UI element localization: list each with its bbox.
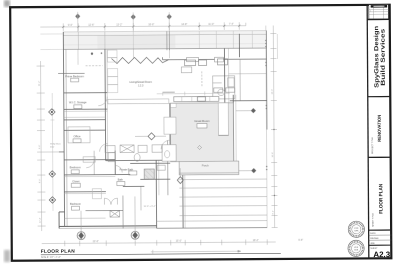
svg-text:OAK: OAK [354,229,359,232]
svg-text:Bedroom: Bedroom [70,165,82,169]
powder room [162,145,176,162]
scan shadow top-left corner [4,0,10,7]
island dashed line [201,71,203,87]
title block: date / drawn / job rows [369,232,392,245]
svg-text:11'-2": 11'-2" [39,80,41,86]
stamp seal lower [348,240,364,256]
room label: bath [117,168,137,185]
exterior wall bottom [59,211,157,228]
left dim numbers [39,79,275,223]
bottom grid bubble 1 [77,211,85,240]
right side grid diamond E [239,168,257,173]
scan shadow bottom-left corner [4,250,10,262]
door hardware dots [91,52,103,55]
svg-text:OAK: OAK [354,248,359,251]
svg-text:DRAWN: DRAWN [370,237,379,240]
svg-text:SCALE: 1/4" = 1'-0": SCALE: 1/4" = 1'-0" [41,256,61,259]
interior wall verticals [93,30,278,228]
hall walls [65,210,124,218]
left grid diamond A [49,109,55,115]
svg-text:Bedroom: Bedroom [70,202,82,206]
svg-text:1,2,3: 1,2,3 [138,84,144,87]
svg-text:12'-6": 12'-6" [88,24,94,27]
title block: sheet number A2.3 [370,248,391,259]
svg-text:FLOOR PLAN: FLOOR PLAN [378,183,384,213]
room label: wic [69,100,87,108]
window dots right edge [265,40,275,196]
prime bedroom closet dashes [58,66,103,74]
svg-text:Prime Bedroom: Prime Bedroom [65,74,84,78]
right side grid diamond D [236,108,256,113]
top exterior deck band [63,31,266,51]
room label: bedroom 3 [70,202,82,210]
folding glass zigzag wall [111,57,168,63]
title block: project title box (RENOVATION) [368,115,391,158]
bottom dim text [93,239,304,243]
grid marker 2 [131,12,136,58]
room label: living room [129,80,152,88]
small island box [181,67,192,73]
stamp seal upper [348,221,364,237]
left dimension line [37,61,59,231]
room label: prime bedroom [65,74,84,82]
svg-text:1: 1 [370,10,371,12]
bottom secondary dimension line [151,249,241,254]
closet row boxes [105,145,162,153]
svg-text:18'-2": 18'-2" [253,239,259,242]
svg-text:SpyGlass Design: SpyGlass Design [374,25,380,87]
svg-text:10'-6" x 9'-2": 10'-6" x 9'-2" [143,206,155,208]
bottom dimension line [42,239,276,246]
svg-text:11'-0": 11'-0" [208,23,214,26]
interior wall horizontals [58,74,267,194]
svg-text:W.I.C. Storage: W.I.C. Storage [69,100,87,104]
bath fixtures [108,152,165,170]
garage / great room gray area [164,103,234,162]
svg-text:9'-8": 9'-8" [298,239,303,242]
title block: revisions table [367,5,390,20]
svg-text:Great Room: Great Room [194,119,210,123]
left grid diamond B [49,171,55,177]
svg-text:Office: Office [74,134,82,138]
top dimension line [40,22,246,31]
svg-text:Porch: Porch [202,163,209,167]
exterior wall left [63,32,67,227]
interior dim line y93.5 [157,91,230,95]
svg-text:8'-0": 8'-0" [39,178,41,183]
svg-text:9'-0": 9'-0" [68,24,73,27]
title block: firm name (SpyGlass Design Build Services) [367,25,390,96]
svg-text:SHEET TITLE: SHEET TITLE [373,213,375,227]
svg-text:15'-0": 15'-0" [176,240,182,243]
svg-text:22'-6": 22'-6" [93,240,99,243]
closet shelving cells along corridor [107,50,117,93]
svg-text:FLOOR PLAN: FLOOR PLAN [41,249,75,255]
svg-text:Verify Glass: Verify Glass [50,143,61,145]
svg-text:Bath: Bath [118,179,124,182]
title block: sheet title box (FLOOR PLAN) [368,183,391,230]
room label: office [68,127,90,143]
buffet band left [108,99,169,104]
top dimension tick marks [62,25,240,28]
svg-text:12'-4": 12'-4" [40,217,42,223]
grid marker 3 [167,12,172,58]
wall below deck band [63,48,266,49]
svg-text:A2.3: A2.3 [373,250,391,259]
svg-text:DATE: DATE [370,232,376,235]
left grid diamond C [49,197,55,203]
svg-text:Living/Great Room: Living/Great Room [129,80,152,84]
bathroom hatch room [144,169,154,179]
svg-text:PROJECT TITLE: PROJECT TITLE [372,137,374,154]
right dimension line [266,25,278,227]
svg-text:9'-6": 9'-6" [39,144,41,149]
deck dim extension lines left [40,34,63,50]
mid grid diamond F [135,133,166,140]
bottom grid bubble 2 [131,196,139,239]
room label: bedroom 2 [70,165,82,173]
margin note text [50,143,61,148]
great room label [194,119,210,150]
kitchen top wall with windows [162,57,266,63]
svg-text:RENOVATION: RENOVATION [377,115,382,142]
svg-text:14'-8": 14'-8" [181,23,187,26]
drawing title: FLOOR PLAN [41,247,281,259]
door arcs [86,96,171,173]
hall dim text [143,206,155,208]
title block: left edge line [367,5,369,259]
french doors hall [104,198,117,205]
mid grid diamond G [177,168,183,184]
porch band [179,161,239,175]
svg-text:Closet: Closet [72,180,79,183]
equipment x-box [110,211,120,218]
top dimension text [68,23,234,27]
grid marker 1 [75,12,80,65]
secondary left dim line [50,93,55,211]
pantry room right of kitchen [213,76,235,99]
svg-text:13'-2": 13'-2" [116,24,122,27]
svg-text:Build Services: Build Services [381,28,387,86]
closet label and furniture [71,157,101,199]
kitchen counter band [174,96,219,101]
svg-text:7'-4": 7'-4" [229,23,234,26]
patio step lines [156,179,267,228]
kitchen island appliances [185,59,228,66]
kitchen room tags [214,88,235,93]
svg-text:16'-0": 16'-0" [148,23,154,26]
